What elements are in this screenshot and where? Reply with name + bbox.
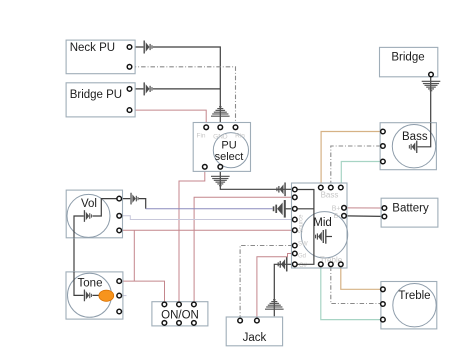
wire Vol wiper to terminal1: [92, 199, 117, 216]
wire Bass wiper (redraw over box): [417, 123, 430, 147]
terminal ON/ON bottom: [162, 321, 167, 326]
ground arrow at Vol terminal1: [130, 193, 138, 205]
capacitor tone cap: [99, 290, 114, 301]
svg-text:B-: B-: [334, 213, 342, 220]
wire Vol out to Mid row3 (purple): [146, 208, 273, 210]
ground arrow Bass wiper: [409, 141, 418, 153]
ground arrow Vol wiper: [84, 210, 92, 222]
potentiometer Treble: [381, 282, 437, 329]
terminal Battery: [382, 206, 387, 211]
pickup Bridge: [380, 47, 438, 76]
wire Mid B- to Battery: [346, 215, 382, 218]
pickup Bridge PU: [66, 83, 135, 117]
ground arrow Mid row8: [278, 257, 288, 271]
ground symbol above Jack: [265, 299, 284, 310]
svg-text:Treble: Treble: [398, 290, 430, 302]
switch ON/ON: [152, 302, 208, 326]
wire Mid B+ to Battery (red): [346, 207, 382, 209]
wire Bass term1 to Mid top1 (tan): [321, 132, 381, 186]
terminal Bass: [381, 129, 386, 134]
pickup Neck PU: [66, 40, 135, 74]
wire bridge PU out to PU select Fin (red): [132, 110, 207, 125]
wire Mid internal jumper (redraw over box): [295, 190, 314, 265]
wire Mid wiper dash-dot stub: [333, 227, 345, 247]
ground arrow at Bridge PU: [144, 82, 153, 95]
svg-text:Fin: Fin: [196, 132, 205, 139]
wire Bass term3 to Mid top3 (teal): [341, 162, 380, 186]
ground arrow Tone wiper: [84, 290, 92, 302]
wire stub Mid row3: [284, 208, 293, 210]
terminal PU select bottom: [203, 165, 208, 170]
wire Vol out terminal to purple junction: [121, 199, 145, 209]
wire Jack tip to Mid row7 (red): [257, 254, 293, 319]
wire Tone term2 stub (lavender): [121, 295, 126, 297]
control Mid: [292, 183, 348, 269]
switch PU select: [193, 123, 250, 172]
terminal Vol: [117, 196, 122, 201]
terminal Jack: [238, 318, 243, 323]
battery Battery: [381, 198, 438, 227]
terminal ON/ON top: [162, 302, 167, 307]
wire Bass wiper to Bridge terminal: [417, 77, 430, 147]
terminal Mid top row: [319, 185, 324, 190]
ground arrow Mid wiper: [315, 229, 332, 243]
svg-text:Source: Source: [299, 214, 305, 234]
terminal Mid left column: [293, 187, 298, 192]
terminal Tone: [117, 279, 122, 284]
svg-text:Bass: Bass: [402, 131, 428, 143]
ground arrow at Neck PU: [144, 41, 153, 54]
wire Mid row8 to ground above Jack: [274, 264, 292, 316]
wire neck out to PU select Rin (shield dash-dot): [132, 67, 236, 125]
ground symbol above PU select: [211, 106, 230, 117]
wire Mid bot2 to Treble term2 (shield dash-dot): [331, 267, 381, 304]
svg-text:Gd: Gd: [298, 254, 306, 260]
wire bridge hot to gnd bus: [132, 88, 221, 90]
terminal PU select top: [204, 125, 209, 130]
svg-text:Mid: Mid: [313, 217, 332, 229]
wire Vol term3 to Mid row5 (red): [121, 229, 292, 231]
terminal neck 1: [117, 45, 433, 326]
wire PU select out to ON/ON mid (red): [179, 169, 205, 302]
terminal Mid right: [342, 206, 347, 211]
wire Bass term2 to Mid top2 (shield dash-dot): [331, 146, 381, 185]
wire Vol term3 branch to ON/ON left (red): [121, 230, 164, 302]
potentiometer Vol: [66, 190, 122, 238]
wire Tone wiper to cap: [92, 294, 100, 296]
svg-text:PU: PU: [221, 139, 236, 151]
svg-text:select: select: [215, 151, 244, 163]
svg-text:Battery: Battery: [392, 203, 429, 215]
wire Mid bot3 to Treble term1 (tan): [341, 267, 381, 290]
connector Jack: [226, 317, 282, 346]
wire Mid bot1 to Treble term3 (teal): [321, 267, 381, 320]
wire Tone wiper (redraw over circle): [74, 272, 100, 296]
svg-text:Bridge PU: Bridge PU: [70, 89, 122, 101]
potentiometer Bass: [380, 123, 436, 170]
ground arrow Mid row1: [276, 182, 285, 196]
ground symbol below Bridge: [422, 81, 441, 92]
ground symbol below PU select: [211, 176, 230, 187]
svg-text:SW: SW: [298, 242, 308, 248]
wire neck hot to gnd bus: [132, 47, 221, 125]
svg-text:Tone: Tone: [78, 278, 103, 290]
wire Mid row2 to ON/ON right (red): [194, 197, 293, 302]
ground arrow Mid row3: [273, 200, 286, 218]
wire Vol wiper (redraw over circle): [74, 199, 117, 238]
svg-text:B+: B+: [332, 205, 341, 212]
wire Mid row6 to Jack sleeve (shield dash-dot): [240, 246, 293, 319]
wire Vol casing down to Tone casing: [74, 216, 84, 295]
terminal Mid bottom row: [319, 262, 324, 267]
wire Vol term2 to Mid row4 (lavender): [121, 216, 292, 220]
wire PU select gnd to Mid row1: [220, 169, 293, 189]
wire Mid internal jumper row1-row3-row8: [295, 190, 314, 265]
potentiometer Tone: [66, 272, 123, 319]
svg-text:Bridge: Bridge: [391, 51, 424, 63]
svg-text:Jack: Jack: [243, 332, 267, 344]
svg-text:Neck PU: Neck PU: [70, 42, 115, 54]
terminal bridge PU: [127, 87, 132, 92]
svg-text:Vol: Vol: [81, 198, 97, 210]
svg-text:Bass: Bass: [321, 191, 339, 200]
svg-text:ON/ON: ON/ON: [161, 309, 199, 321]
terminal Bridge: [429, 72, 434, 77]
terminal Treble: [381, 287, 386, 292]
